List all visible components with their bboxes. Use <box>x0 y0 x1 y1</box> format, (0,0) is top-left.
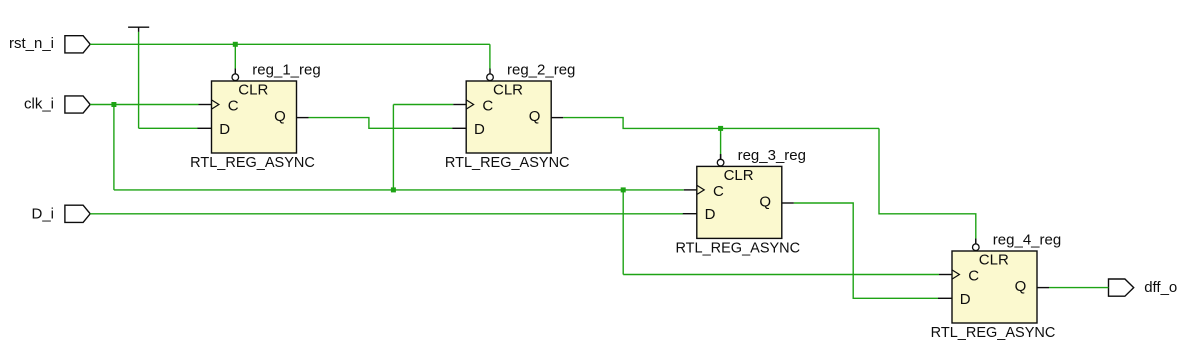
pin D of reg_2_reg <box>452 127 466 129</box>
wire rst branch down to reg_1 CLR <box>234 44 236 69</box>
junction on clk net at vertical drop <box>111 102 116 107</box>
wire reg_4 Q to dff_o port <box>1049 287 1109 289</box>
svg-text:RTL_REG_ASYNC: RTL_REG_ASYNC <box>445 155 570 171</box>
wire clk branch up to reg_2 C <box>392 105 394 190</box>
svg-text:D: D <box>960 291 971 308</box>
svg-text:Q: Q <box>529 108 541 125</box>
svg-text:CLR: CLR <box>238 82 268 99</box>
svg-text:RTL_REG_ASYNC: RTL_REG_ASYNC <box>190 155 315 171</box>
svg-text:Q: Q <box>759 193 771 210</box>
junction on clk rail at reg_4 branch <box>621 187 626 192</box>
svg-text:CLR: CLR <box>493 82 523 99</box>
wire unconnected net to reg_1 D <box>139 32 198 128</box>
wire clk vertical drop <box>113 105 115 190</box>
svg-text:dff_o: dff_o <box>1144 279 1177 296</box>
svg-text:C: C <box>713 183 724 200</box>
svg-text:reg_3_reg: reg_3_reg <box>738 147 806 164</box>
junction on rst net at reg_1 branch <box>233 42 238 47</box>
wire continuation to reg_4 CLR <box>879 128 976 238</box>
pin C (clock) of reg_1_reg <box>199 104 212 106</box>
input port D_i <box>31 205 90 222</box>
svg-text:Q: Q <box>1015 278 1027 295</box>
svg-text:C: C <box>968 268 979 285</box>
pin Q of reg_2_reg <box>551 117 563 119</box>
wire clk branch down to reg_4 C <box>622 190 624 275</box>
pin Q of reg_1_reg <box>297 117 309 119</box>
svg-text:C: C <box>482 98 493 115</box>
pin CLR bubble of reg_4_reg <box>975 239 977 244</box>
pin C (clock) of reg_3_reg <box>684 189 697 191</box>
wire reg_3 Q to reg_4 D <box>794 203 938 298</box>
svg-text:CLR: CLR <box>979 252 1009 269</box>
input port rst_n_i <box>9 35 90 53</box>
svg-text:reg_2_reg: reg_2_reg <box>507 62 575 79</box>
pin Q of reg_4_reg <box>1037 287 1049 289</box>
pin CLR bubble of reg_1_reg <box>234 69 236 74</box>
flip-flop reg_1_reg (RTL_REG_ASYNC) <box>190 62 321 171</box>
svg-text:D: D <box>474 121 485 138</box>
wire rst branch down to reg_2 CLR <box>489 44 491 69</box>
output port dff_o <box>1109 279 1178 296</box>
junction on reg_2 Q net at reg_3 CLR branch <box>718 126 723 131</box>
pin C (clock) of reg_4_reg <box>939 274 952 276</box>
flip-flop reg_4_reg (RTL_REG_ASYNC) <box>931 232 1062 341</box>
flip-flop reg_3_reg (RTL_REG_ASYNC) <box>675 147 806 256</box>
flip-flop reg_2_reg (RTL_REG_ASYNC) <box>445 62 576 171</box>
input port clk_i <box>24 96 90 113</box>
wire D_i net to reg_3 D <box>90 213 683 215</box>
pin CLR bubble of reg_2_reg <box>489 69 491 74</box>
svg-text:Q: Q <box>274 108 286 125</box>
wire rst_n_i net: port to reg_1/reg_2 CLR <box>90 44 490 69</box>
svg-text:reg_1_reg: reg_1_reg <box>252 62 320 79</box>
svg-text:rst_n_i: rst_n_i <box>9 35 54 52</box>
svg-text:clk_i: clk_i <box>24 96 54 113</box>
unconnected net stub symbol (T-bar) <box>128 27 149 32</box>
wire branch down to reg_3 CLR <box>720 128 722 154</box>
pin CLR bubble of reg_3_reg <box>720 154 722 159</box>
pin D of reg_3_reg <box>683 213 697 215</box>
wire reg_1 Q to reg_2 D <box>309 118 453 129</box>
svg-text:CLR: CLR <box>724 167 754 184</box>
svg-text:RTL_REG_ASYNC: RTL_REG_ASYNC <box>675 240 800 256</box>
pin D of reg_1_reg <box>198 127 212 129</box>
svg-text:RTL_REG_ASYNC: RTL_REG_ASYNC <box>931 325 1056 341</box>
svg-text:D_i: D_i <box>31 206 54 223</box>
wire reg_2 Q net to reg_3/reg_4 CLR <box>563 118 976 244</box>
pin C (clock) of reg_2_reg <box>453 104 466 106</box>
wire clk_i net <box>90 105 939 275</box>
svg-text:D: D <box>219 121 230 138</box>
svg-text:C: C <box>228 98 239 115</box>
wire clk horizontal rail <box>114 189 684 191</box>
svg-text:reg_4_reg: reg_4_reg <box>993 232 1061 249</box>
junction on clk rail at reg_2 branch <box>391 187 396 192</box>
pin D of reg_4_reg <box>938 297 952 299</box>
pin Q of reg_3_reg <box>782 202 794 204</box>
svg-text:D: D <box>705 206 716 223</box>
